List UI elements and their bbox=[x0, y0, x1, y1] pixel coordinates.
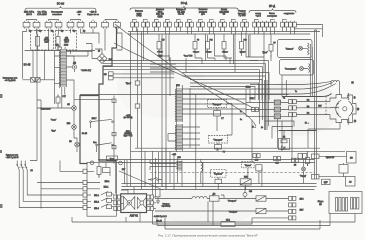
label box Prim bbox=[107, 156, 118, 160]
unit BC-3b brace bbox=[25, 2, 96, 11]
motor M2 bbox=[137, 197, 146, 208]
dashed filter boxes bbox=[31, 31, 77, 51]
relay unit top glands bbox=[90, 161, 122, 165]
motor M1 bbox=[124, 197, 135, 210]
label signal net bbox=[3, 78, 18, 82]
thick wire lower bbox=[279, 130, 317, 132]
transformer T1 bbox=[59, 49, 66, 88]
unit box hint verticals bbox=[169, 34, 248, 61]
relay Gyrodvig 1 bbox=[208, 100, 227, 121]
unit boundary thick bbox=[80, 27, 117, 194]
right centre connectors bbox=[289, 100, 297, 117]
left feeder bus bbox=[23, 29, 27, 79]
T1 top leads bbox=[58, 47, 65, 51]
fuse row bbox=[23, 21, 120, 29]
lamp HL2 bbox=[51, 120, 77, 130]
dashed boundary near selsyn bbox=[325, 96, 327, 116]
relay Gyrodvig 2 bbox=[209, 136, 228, 154]
relay unit internals bbox=[87, 163, 112, 210]
lamp box drops bbox=[282, 44, 312, 97]
indicator circle 39V bbox=[243, 187, 253, 199]
fuse designators bbox=[29, 31, 85, 33]
wire vklyuchatel bbox=[37, 107, 72, 109]
top-left terminal labels bbox=[24, 12, 100, 17]
scan specks bbox=[0, 94, 3, 208]
wire row to right bus bbox=[295, 25, 323, 38]
bottom nested buses bbox=[72, 214, 355, 230]
misc vertical drops bbox=[93, 32, 271, 73]
relay EK-1 bbox=[152, 218, 288, 227]
distribution buses bbox=[128, 32, 320, 187]
wires below fuse row left bbox=[25, 29, 118, 80]
lamp box Signal bbox=[278, 40, 313, 58]
heater relay 1 bbox=[228, 196, 289, 203]
thick selsyn ground wire bbox=[282, 94, 332, 97]
curved feeds to selsyn bbox=[250, 82, 336, 95]
T1 labels bbox=[55, 45, 69, 47]
relay unit left connectors bbox=[83, 169, 87, 209]
top-right terminal labels bbox=[135, 9, 294, 18]
contact bottom left bbox=[148, 177, 162, 180]
relay Gorizont bbox=[211, 169, 227, 186]
selsyn pin labels bbox=[351, 82, 359, 123]
left tap bus bbox=[55, 51, 61, 105]
svg-text:Рис. 2.17. Принципиальная элек: Рис. 2.17. Принципиальная электрическая … bbox=[158, 234, 258, 238]
scan shading bbox=[117, 58, 340, 225]
battery block bbox=[318, 192, 362, 214]
AP connector pairs bbox=[253, 154, 299, 167]
resistor R17 bbox=[56, 95, 66, 106]
choke L2 bbox=[201, 159, 203, 174]
T1 right taps bbox=[62, 49, 92, 108]
T2 taps bbox=[176, 84, 250, 124]
mid horizontals left of T2 bbox=[142, 34, 196, 190]
relay Tormoz bbox=[242, 162, 262, 171]
right bus pair bbox=[315, 30, 317, 179]
freq label bbox=[153, 216, 167, 223]
charge lamp bbox=[298, 154, 307, 184]
motor DM bbox=[66, 63, 91, 73]
secondary bus bbox=[37, 100, 41, 209]
three-phase switch bbox=[17, 161, 33, 174]
pult PB connectors bbox=[312, 154, 335, 179]
long diagonal wire bbox=[115, 24, 256, 126]
relay unit right wires bbox=[112, 194, 114, 207]
unit BP-D brace bbox=[249, 4, 296, 13]
gyro unit AMG-02 box bbox=[121, 194, 147, 213]
diagonal into heater area bbox=[119, 171, 163, 190]
connector 6Sh bbox=[104, 72, 174, 80]
centre bus connectors bbox=[126, 29, 156, 197]
transformer T4 bbox=[176, 161, 182, 171]
second diagonal wire bbox=[114, 43, 253, 108]
transformer T2 bbox=[175, 88, 182, 122]
selsyn feed wires bbox=[296, 99, 330, 115]
resistor RU bbox=[262, 32, 276, 73]
ship mains label bbox=[6, 155, 20, 159]
bottom right connector column bbox=[289, 196, 304, 220]
vertical x252 bbox=[251, 120, 253, 162]
ground fork bbox=[156, 197, 160, 204]
resistor R37 right bbox=[306, 151, 310, 166]
top-right row top links bbox=[132, 20, 286, 21]
long buses bbox=[80, 95, 345, 190]
unit BC-D brace bbox=[130, 1, 238, 10]
selsyn top coil bbox=[331, 81, 339, 95]
bridge rectifier bbox=[86, 44, 113, 64]
top-right connector row bbox=[131, 21, 297, 27]
lower link wires bbox=[121, 160, 160, 222]
row drop stubs bbox=[132, 27, 294, 34]
bundle A horizontals bbox=[99, 61, 269, 131]
resistor stack right bbox=[246, 80, 289, 130]
TsMU box bbox=[322, 179, 331, 184]
lamp HL3 bbox=[51, 131, 79, 147]
heater relay 2 bbox=[155, 208, 289, 213]
AMG right connector pairs bbox=[147, 151, 156, 224]
relay RL box bbox=[279, 137, 290, 151]
AMG left connector pairs bbox=[114, 195, 121, 211]
T4 leads bbox=[178, 159, 182, 174]
PSU boxes bbox=[319, 152, 356, 187]
selsyn right coils bbox=[348, 93, 349, 124]
bundle B nested corners bbox=[182, 73, 269, 101]
heater drops bbox=[208, 195, 224, 226]
left margin notes bbox=[124, 115, 133, 137]
main left bus bbox=[30, 29, 37, 161]
selsyn return corner bbox=[265, 121, 294, 139]
lamp box Illumination bbox=[280, 60, 314, 76]
T3 taps bbox=[168, 127, 200, 152]
resistor R1 bbox=[36, 34, 50, 49]
three-phase feeder wires bbox=[19, 161, 83, 208]
dash-dot boundary mid-bottom bbox=[150, 171, 315, 173]
bus with contacts bbox=[74, 96, 116, 164]
selsyn bottom lead bbox=[308, 123, 340, 130]
signal net connector bbox=[23, 78, 55, 83]
selsyn receiver bbox=[330, 95, 356, 123]
right-centre drops bbox=[217, 104, 308, 160]
lamp column wires bbox=[74, 100, 77, 152]
transformer T3 bbox=[175, 124, 182, 150]
lamp HL1 bbox=[67, 104, 76, 110]
inductor DS bbox=[155, 194, 256, 202]
extra designator specks bbox=[158, 55, 297, 130]
selsyn phase coil bbox=[330, 107, 339, 108]
relay P4V bbox=[240, 177, 251, 186]
bottom centre verticals bbox=[150, 148, 262, 190]
heater label bbox=[162, 204, 171, 208]
relay unit box bbox=[87, 163, 116, 217]
resistor R2 bbox=[56, 34, 69, 49]
top-left wiring above fuses bbox=[27, 20, 118, 21]
resistor row centre bbox=[157, 32, 247, 59]
